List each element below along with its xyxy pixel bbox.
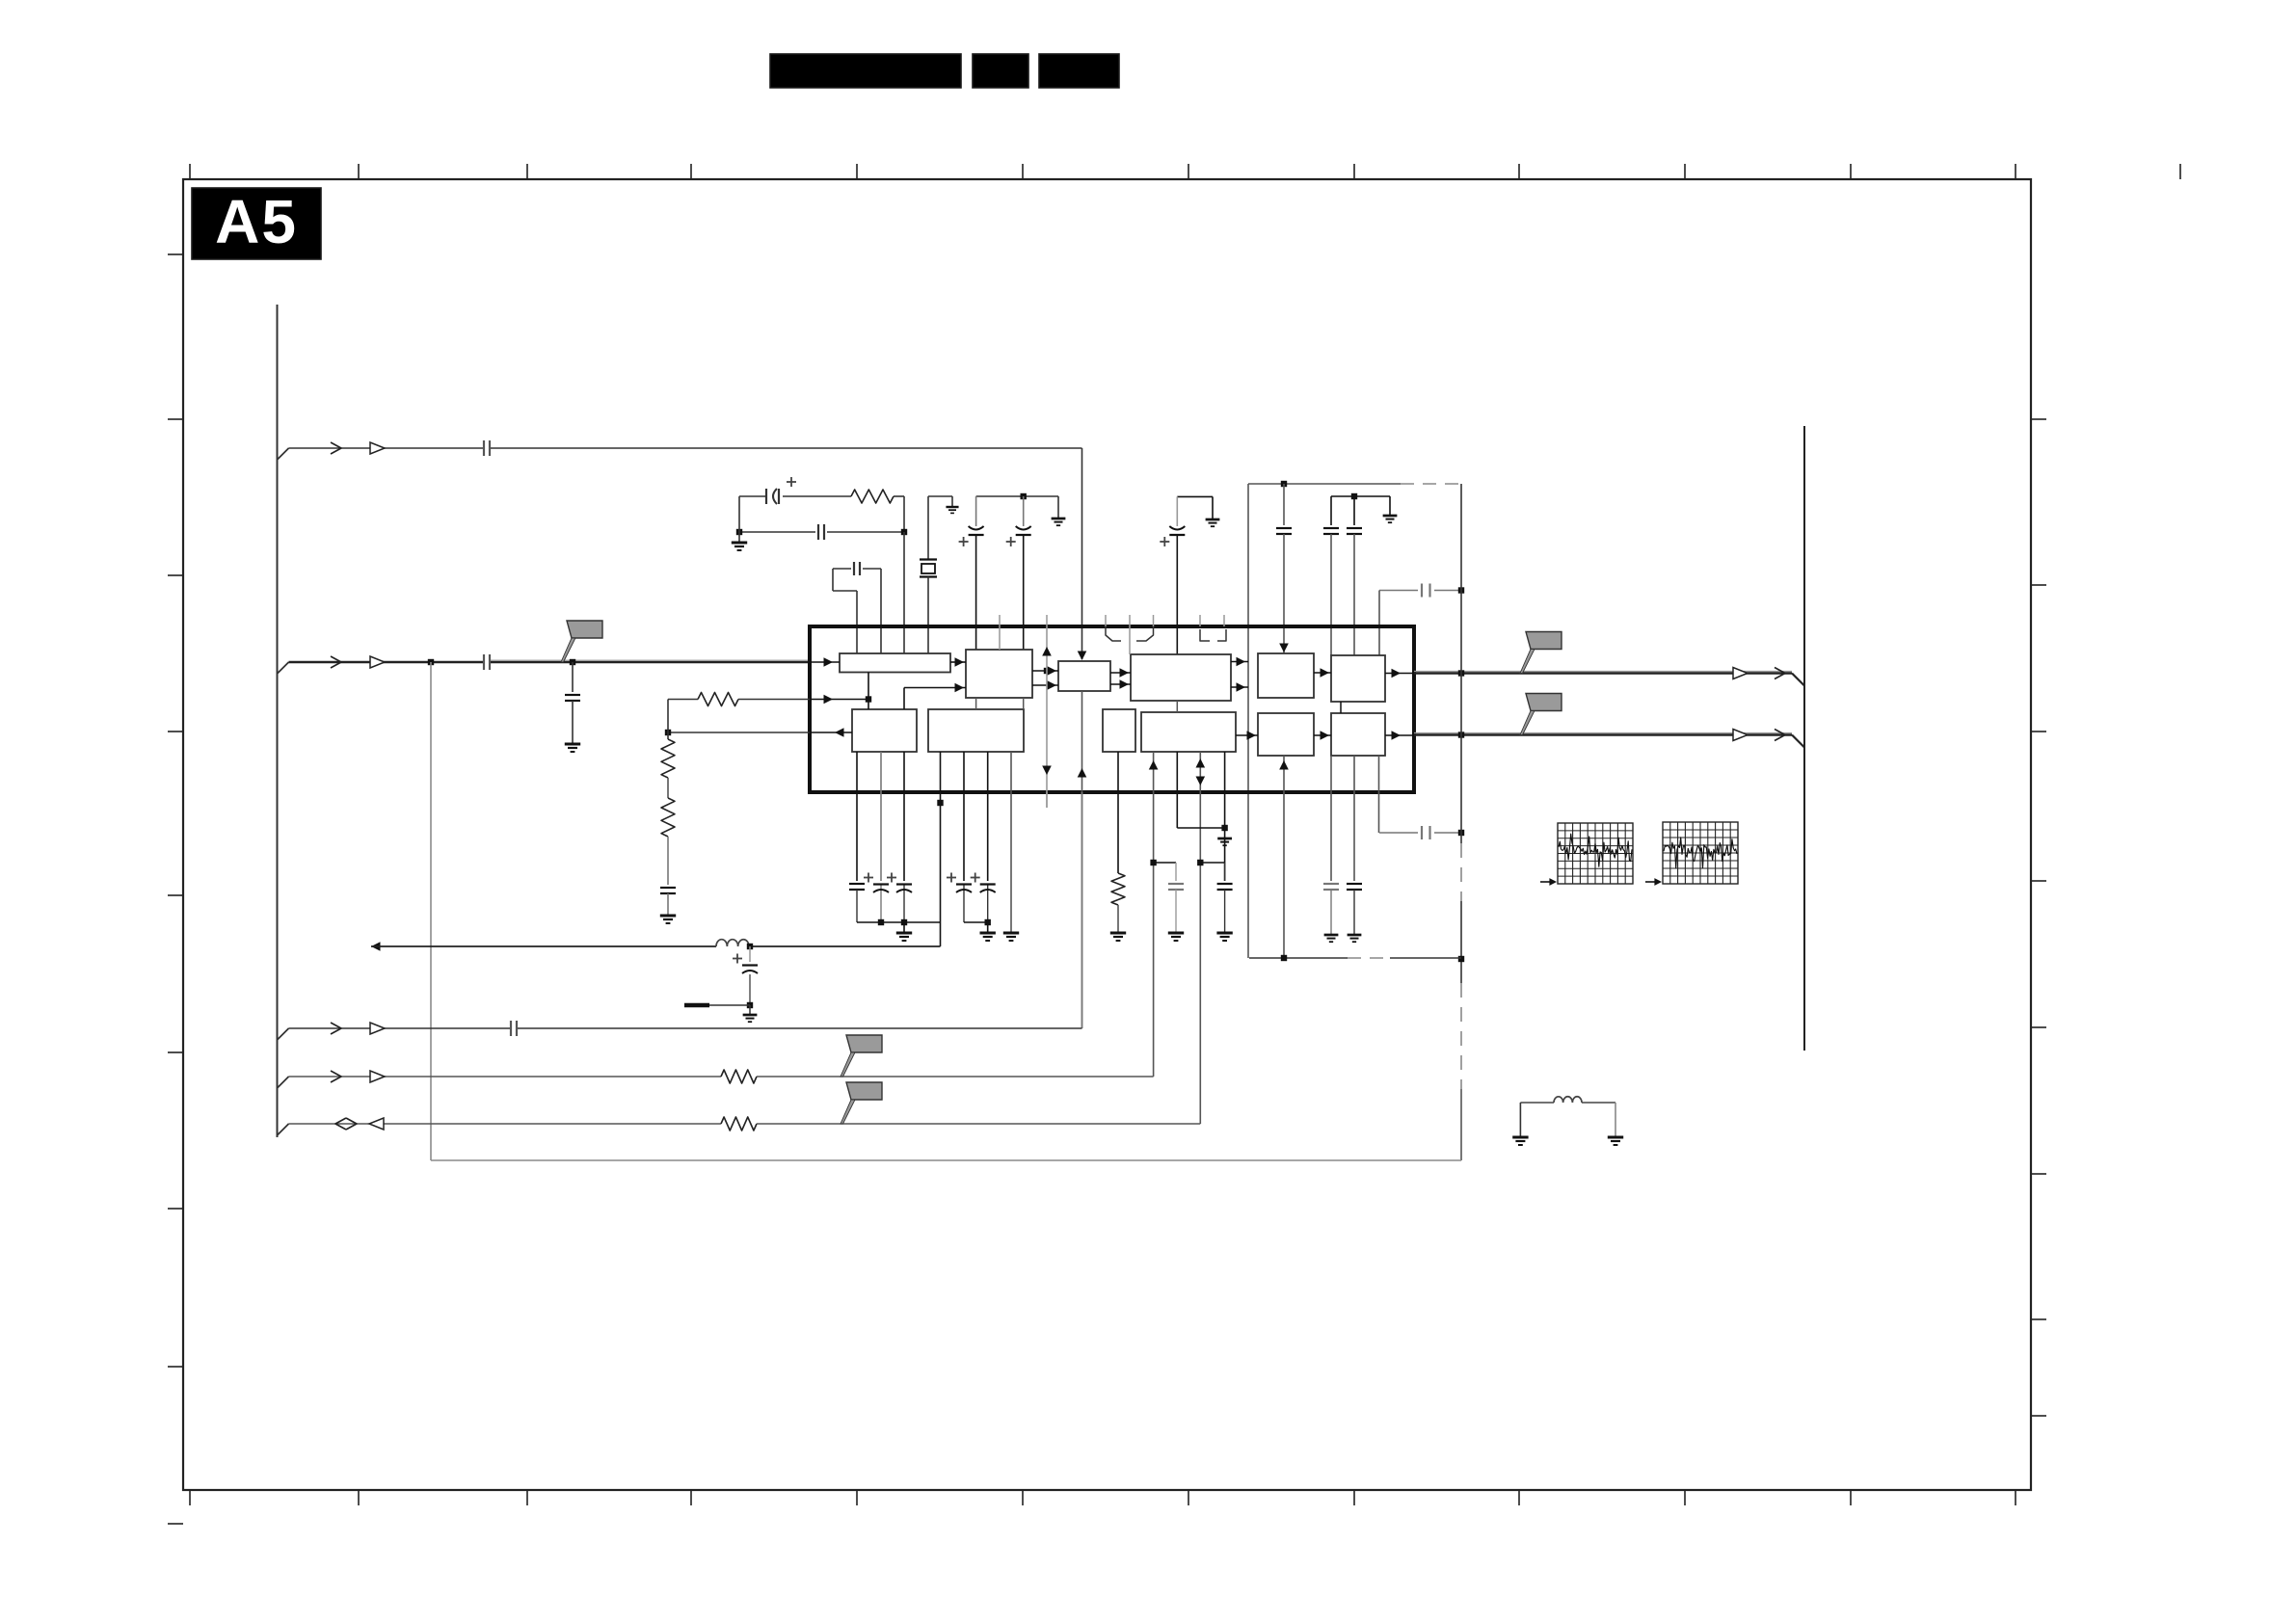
block AGC (966, 650, 1032, 698)
wire C12 upper lead (1353, 496, 1355, 525)
wire block2 bottom link a (975, 698, 977, 709)
wire R2 to IC edge (738, 699, 810, 701)
capacitor C20 (1217, 883, 1233, 885)
capacitor C11 (1323, 527, 1339, 529)
wire block7 output to left (810, 732, 852, 733)
arrow into block11 (1247, 731, 1257, 740)
wire feedback top y502 (1248, 483, 1401, 485)
wire pin x1405 block12 to C22 (1353, 756, 1355, 881)
wire block12 output (1385, 734, 1414, 736)
wire block2 out lower to block3 (1032, 684, 1058, 686)
node dot x1245 y895 (1197, 860, 1203, 865)
arrow block6 output (1392, 669, 1402, 678)
ground right of L2 (1608, 1136, 1623, 1139)
capacitor C6 (853, 562, 855, 575)
shield hook right pair (1200, 629, 1210, 641)
wire pin x975 block8 down (940, 792, 942, 946)
wire x1516 solid lower (1460, 1089, 1462, 1160)
frame left ruler ticks (168, 253, 183, 255)
wire cap loop left leg (832, 569, 834, 591)
main input wire right thick (491, 659, 810, 661)
wire block2 bottom link b (1023, 698, 1025, 709)
pin stub above IC x1086 (1046, 615, 1048, 626)
wire R4 to C23 (667, 837, 669, 885)
wire pin x1196 block10 down (1153, 752, 1155, 1077)
wire x1332 upper lead (1283, 484, 1285, 525)
block reference lower (928, 709, 1024, 752)
resistor R5 below IC (1111, 873, 1125, 905)
ground right of C9 (1206, 519, 1220, 521)
wire block2 out upper to block3 (1032, 670, 1058, 672)
node junction dot main/447 (428, 659, 434, 665)
top input wire segment left (289, 447, 484, 449)
inductor L1 (716, 940, 727, 946)
wire block4 bottom to block10 top link (1176, 701, 1178, 712)
wire pin x1160 block9 to R5 (1117, 752, 1119, 873)
ground below C3 (565, 743, 580, 746)
top input wire segment right (491, 447, 1082, 449)
right vertical bus wire (1803, 426, 1805, 1051)
inductor L2 (1554, 1097, 1563, 1103)
ground below divider (660, 915, 676, 918)
block out stage lower (1331, 713, 1385, 756)
flag callout on B3 (846, 1082, 882, 1100)
wire charge pump line x1086 (1046, 626, 1048, 808)
node dot y982 L1 (747, 944, 753, 949)
node dot cluster1 a (878, 919, 884, 925)
resistor R2 to IC (698, 693, 738, 706)
arrow block12 output (1392, 731, 1402, 740)
block demod lower (1258, 713, 1314, 756)
op-chip U1 outline (810, 626, 1414, 792)
wire cap stub lower (1379, 832, 1418, 834)
wire C25 upper lead (749, 946, 751, 962)
block IF filter wide (1131, 654, 1231, 701)
connector triangle on out1 (1733, 668, 1748, 679)
wire block6 output (1385, 673, 1414, 675)
block mixer small (1058, 661, 1110, 691)
wire cluster2 bottom bus (964, 921, 988, 923)
connector triangle left on B3 (369, 1118, 384, 1130)
wire return y1204 (431, 1159, 1461, 1161)
capacitor C1 on top wire (483, 440, 485, 456)
wire top wire drop to IC block3 (1081, 448, 1083, 659)
chevron on out1 (1775, 668, 1785, 679)
node dot RC right (901, 529, 907, 535)
node dot y502/x1332 (1281, 481, 1287, 487)
wire pin x914 block7 to C15 (880, 752, 882, 881)
title bar redacted block 2 (973, 54, 1028, 88)
resistor R1 horizontal (851, 490, 894, 503)
wire RC loop bottom (739, 531, 815, 533)
wire RC loop top (739, 495, 766, 497)
capacitor C26 on B1 (510, 1021, 512, 1036)
ground below C20 (1216, 932, 1232, 935)
wire RC right drop (903, 496, 905, 532)
wire pin x914 into block1 (880, 569, 882, 653)
pin stub above IC x1270 (1223, 615, 1225, 626)
frame top ruler ticks (189, 164, 191, 179)
arrow on resistor input (824, 695, 834, 705)
arrow up into block10 b (1196, 758, 1206, 768)
node dot below C25 (747, 1002, 753, 1008)
ground below C22 (1348, 934, 1362, 937)
capacitor C22 (1347, 883, 1362, 885)
pin stub above IC x1172 (1129, 615, 1131, 626)
output wire 1 (1414, 671, 1792, 673)
wire pin x889 block7 to C14 (856, 752, 858, 881)
wire elco pair ground drop (1057, 496, 1059, 519)
resistor R4 divider lower (661, 798, 675, 837)
chevron on B1 (331, 1023, 341, 1034)
wire gray vertical x447 (430, 662, 432, 1160)
wire C9 hook to ground (1177, 495, 1213, 497)
resistor R6 on B2 (721, 1070, 757, 1083)
capacitor C2 on main wire (483, 654, 485, 670)
wire R3 R4 link (667, 778, 669, 798)
wire cluster2 ground stem (987, 922, 989, 933)
bottom wire B3 left (289, 1123, 722, 1125)
electrolytic capacitor C8 (1016, 526, 1031, 530)
wire block7 top to block2 lower input (903, 688, 905, 710)
bottom wire B3 right (757, 1123, 1200, 1125)
arrow up on x1086 (1042, 647, 1052, 656)
wire L2 right leg (1615, 1103, 1616, 1137)
wire C11 into IC block6 (1330, 534, 1332, 655)
node junction dot main/594 (570, 659, 575, 665)
chevron on top wire (331, 442, 341, 454)
flag callout on out2 (1526, 694, 1562, 711)
resistor R3 divider upper (667, 732, 669, 739)
wire x1295 vertical into IC (1247, 484, 1249, 958)
wire L2 left segment (1520, 1102, 1554, 1104)
ground below C25 (743, 1014, 758, 1017)
capacitor C5 in RC loop (817, 524, 819, 540)
node dot y859 (1221, 825, 1227, 831)
svg-text:A5: A5 (215, 187, 298, 256)
ground below C21 (1324, 934, 1339, 937)
chevron on B2 (331, 1071, 341, 1082)
waveform grid 2 (1663, 822, 1738, 884)
node dot y995 x1332 (1281, 955, 1287, 961)
wire block3 bottom down through IC (1081, 691, 1083, 1028)
arrow into grid 2 (1645, 881, 1658, 883)
wire node to C19 (1154, 862, 1176, 864)
arrow left end of y982 wire (371, 942, 381, 951)
bottom wire B1 right (518, 1027, 1082, 1029)
terminal bar link (709, 1004, 750, 1006)
arrow into block4 upper (1120, 668, 1130, 678)
wire pin x1000 block8 to C17 (963, 752, 965, 881)
arrow out of block7 leftward (835, 728, 844, 737)
frame bottom ruler ticks (189, 1490, 191, 1505)
wire block4 out upper (1231, 661, 1248, 663)
wire bend bus to B3 (278, 1124, 289, 1135)
wire cap loop C6 top (833, 568, 851, 570)
waveform grid 1 (1558, 823, 1633, 884)
wire block3 to block4 lower (1110, 683, 1131, 685)
shield hook left pair (1106, 626, 1121, 641)
arrow into grid 1 (1540, 881, 1553, 883)
wire pin x975 inside (940, 752, 942, 792)
wire C7 into IC block2 (975, 536, 977, 650)
arrow into block3 top (1078, 652, 1087, 661)
title bar redacted block 1 (770, 54, 961, 88)
wire C23 to ground (667, 893, 669, 916)
arrow into block6 (1321, 668, 1330, 678)
wire bend from bus to main wire (278, 662, 289, 674)
arrow into block2 upper (955, 657, 965, 667)
wire block6 to block12 link (1340, 702, 1342, 713)
node dot out1 (1458, 670, 1464, 676)
wire stub x1037 to block2 top (999, 626, 1001, 650)
wire C9 upper lead (1176, 496, 1178, 526)
wire C11 upper lead (1330, 496, 1332, 525)
capacitor C13 stub upper (1421, 584, 1423, 598)
wire block4 out lower (1231, 686, 1248, 688)
pin stub above IC x1037 (999, 615, 1001, 626)
node dot x1196 y895 (1150, 860, 1156, 865)
block control lower wide (1141, 712, 1236, 752)
electrolytic capacitor C9 (1169, 526, 1185, 530)
capacitor C19 (1168, 883, 1184, 885)
electrolytic capacitor C15 (880, 884, 882, 922)
wire block1 bottom to block7 top link (868, 673, 869, 710)
node dot x1086 on wire (1044, 668, 1050, 674)
wire C25 to node (749, 974, 751, 1005)
wire stub below IC x1086 (1046, 792, 1048, 808)
double chevron on B3 (335, 1118, 346, 1130)
arrow into block3 upper (1048, 666, 1057, 676)
wire bend bus to B2 (278, 1077, 289, 1088)
wire cluster1 ground stem (903, 922, 905, 933)
terminal bar (684, 1003, 709, 1008)
wire pin x1049 block8 to ground (1010, 752, 1012, 933)
connector triangle on top wire (370, 442, 385, 454)
wire main input inside IC (810, 661, 840, 663)
ground at node y859 (1217, 838, 1232, 840)
ground for elco pair (1052, 518, 1066, 520)
wire node to C20 (1200, 862, 1224, 864)
node dot cluster2 (985, 919, 991, 925)
arrow block4 out upper (1237, 657, 1246, 667)
arrow into block5 top (1279, 644, 1289, 653)
arrow down on x1086 (1042, 766, 1052, 776)
ground below R5 (1110, 932, 1126, 935)
wire pin x1270 block10 down (1224, 752, 1226, 881)
capacitor C3 to ground (565, 694, 580, 696)
node dot RC left (736, 529, 742, 535)
arrow into block1 (824, 657, 834, 667)
wire pin x1024 block8 to C18 (987, 752, 989, 881)
wire x1516 dashed b (1460, 983, 1462, 1089)
node dot cluster1 b (901, 919, 907, 925)
wire pin x1430 block12 to lower stub (1378, 756, 1380, 833)
wire block7 output to divider node (668, 732, 810, 733)
bottom wire B2 left (289, 1076, 722, 1078)
bottom wire B1 left (289, 1027, 511, 1029)
wire L2 right segment (1582, 1102, 1615, 1104)
ground for caps pair (1383, 515, 1398, 518)
wire pin x1122 below IC (1081, 792, 1083, 1028)
wire C3 to ground (572, 701, 574, 744)
wire resistor input inside IC (810, 699, 868, 701)
wire C19 to ground (1175, 890, 1177, 933)
wire cluster1 bottom bus (857, 921, 941, 923)
wire pin x938 block7 to C16 (903, 752, 905, 881)
connector triangle on B1 (370, 1023, 385, 1034)
flag callout on main wire (567, 621, 602, 638)
left vertical bus wire (277, 305, 279, 1137)
wire y995 solid right (1390, 957, 1461, 959)
wire stub x1172 to block4 top (1129, 626, 1131, 654)
block demod upper (1258, 653, 1314, 698)
wire x1516 dashed a (1460, 843, 1462, 901)
ground cluster2 (980, 932, 996, 935)
frame right ruler ticks (2031, 418, 2046, 420)
wire pin x1221 block10 to node (1176, 752, 1178, 828)
node dot divider (665, 730, 671, 735)
capacitor C21 (1323, 883, 1339, 885)
bend out1 to right bus (1792, 674, 1804, 686)
chevron on main wire (331, 656, 341, 668)
wire L2 left leg (1519, 1103, 1521, 1137)
connector triangle on main wire (370, 656, 385, 668)
title bar redacted block 3 (1039, 54, 1119, 88)
wire C14 lower lead (856, 890, 858, 922)
arrow up into block3 from below (1078, 768, 1087, 778)
electrolytic capacitor C17 (963, 884, 965, 922)
node dot out2 (1458, 732, 1464, 737)
pin stub above IC x1245 (1199, 615, 1201, 626)
wire cap stub upper (1379, 590, 1418, 592)
capacitor C23 (660, 887, 676, 889)
arrow into block12 (1321, 731, 1330, 740)
pin stub above IC x1147 (1105, 615, 1107, 626)
node dot on x901 link (866, 696, 871, 702)
arrow down on x1245 (1196, 777, 1206, 786)
wire caps pair top bus (1331, 495, 1390, 497)
bend out2 to right bus (1792, 735, 1804, 748)
drawing frame border (183, 179, 2031, 1490)
electrolytic capacitor C7 (969, 526, 984, 530)
wire C8 into IC block2 (1023, 536, 1025, 650)
block input amp (840, 653, 950, 673)
wire y995 solid left (1249, 957, 1348, 959)
ground below C19 (1168, 932, 1184, 935)
wire C21 to ground (1330, 890, 1332, 935)
ground left of L2 (1512, 1136, 1528, 1139)
wire block5 to block6 (1314, 672, 1331, 674)
connector triangle on B2 (370, 1071, 385, 1082)
node dot caps pair (1351, 493, 1357, 499)
wire feedback top y502 dashed part (1401, 483, 1461, 485)
electrolytic capacitor C25 (742, 964, 758, 966)
wire C20 to ground (1224, 890, 1226, 933)
wire y982 right (749, 945, 941, 947)
crystal X1 (920, 558, 937, 560)
main input wire left (289, 661, 484, 663)
wire x1431 into IC block6 top (1378, 591, 1380, 656)
arrow up into block11 from below (1279, 760, 1289, 770)
ground at crystal hook (946, 506, 958, 508)
wire pin x1381 block12 to C21 (1330, 756, 1332, 881)
capacitor C12 (1347, 527, 1362, 529)
wire node y859 (1177, 827, 1224, 829)
ground below RC loop (732, 542, 747, 545)
sheet label A5 box (192, 188, 321, 259)
chevron on out2 (1775, 730, 1785, 741)
wire y995 dashed (1348, 957, 1390, 959)
arrow into block4 lower (1120, 679, 1130, 689)
wire x1332 into IC block5 (1283, 534, 1285, 653)
wire node to ground (749, 1005, 751, 1015)
wire block10 to block11 (1236, 734, 1258, 736)
wire pin x889 into block1 (856, 591, 858, 653)
flag callout on out1 (1526, 632, 1562, 650)
electrolytic capacitor C18 (987, 884, 989, 922)
flag callout on B2 (846, 1035, 882, 1052)
resistor R7 on B3 (721, 1117, 757, 1131)
block small lower mid (1103, 709, 1135, 752)
arrow into block3 lower (1048, 680, 1057, 690)
wire bend from bus to top wire (278, 448, 289, 460)
electrolytic capacitor C4 horizontal (765, 489, 767, 504)
node dot elco pair (1021, 493, 1027, 499)
wire y982 left (371, 945, 716, 947)
wire block11 to block12 (1314, 734, 1331, 736)
arrow block4 out lower (1237, 682, 1246, 692)
wire C12 into IC block6 (1353, 534, 1355, 655)
capacitor C10 on x1332 (1276, 527, 1292, 529)
ground for pin x1049 (1003, 932, 1019, 935)
block feedback lower left (852, 709, 917, 752)
block out stage upper (1331, 655, 1385, 702)
wire RC left ground stem (738, 496, 740, 532)
wire C9 into IC block4 (1176, 536, 1178, 654)
output wire 2 (1414, 732, 1792, 734)
capacitor C14 (849, 883, 865, 885)
node dot on x975 (937, 800, 943, 806)
wire block1 to block2 (950, 661, 966, 663)
wire caps pair ground drop (1389, 496, 1391, 516)
wire bend bus to B1 (278, 1028, 289, 1040)
node dot stub lower at bus (1458, 830, 1464, 836)
capacitor C24 stub lower (1421, 826, 1423, 839)
connector triangle on out2 (1733, 730, 1748, 741)
wire R5 to ground (1117, 905, 1119, 933)
wire elco pair top bus (976, 495, 1058, 497)
node dot stub upper at bus (1458, 587, 1464, 593)
wire C22 to ground (1353, 890, 1355, 935)
wire x1516 solid mid (1460, 901, 1462, 983)
wire crystal to IC block1 (927, 577, 929, 654)
node dot x1516 y995 (1458, 956, 1464, 962)
wire crystal top hook (927, 496, 929, 559)
wire cap stub below main wire (572, 662, 574, 692)
arrow up into block10 a (1149, 760, 1159, 770)
wire pin x1245 block10 down (1199, 752, 1201, 1124)
electrolytic capacitor C16 (903, 884, 905, 922)
ground cluster1 (896, 932, 912, 935)
wire block11 bottom down (1283, 756, 1285, 958)
wire C8 upper lead (1023, 496, 1025, 526)
bottom wire B2 right (757, 1076, 1154, 1078)
wire divider corner to resistor wire (667, 700, 669, 733)
arrow into block2 lower (955, 683, 965, 693)
pin stub above IC x1196 (1153, 615, 1155, 626)
wire x938 into IC block1 (903, 532, 905, 653)
